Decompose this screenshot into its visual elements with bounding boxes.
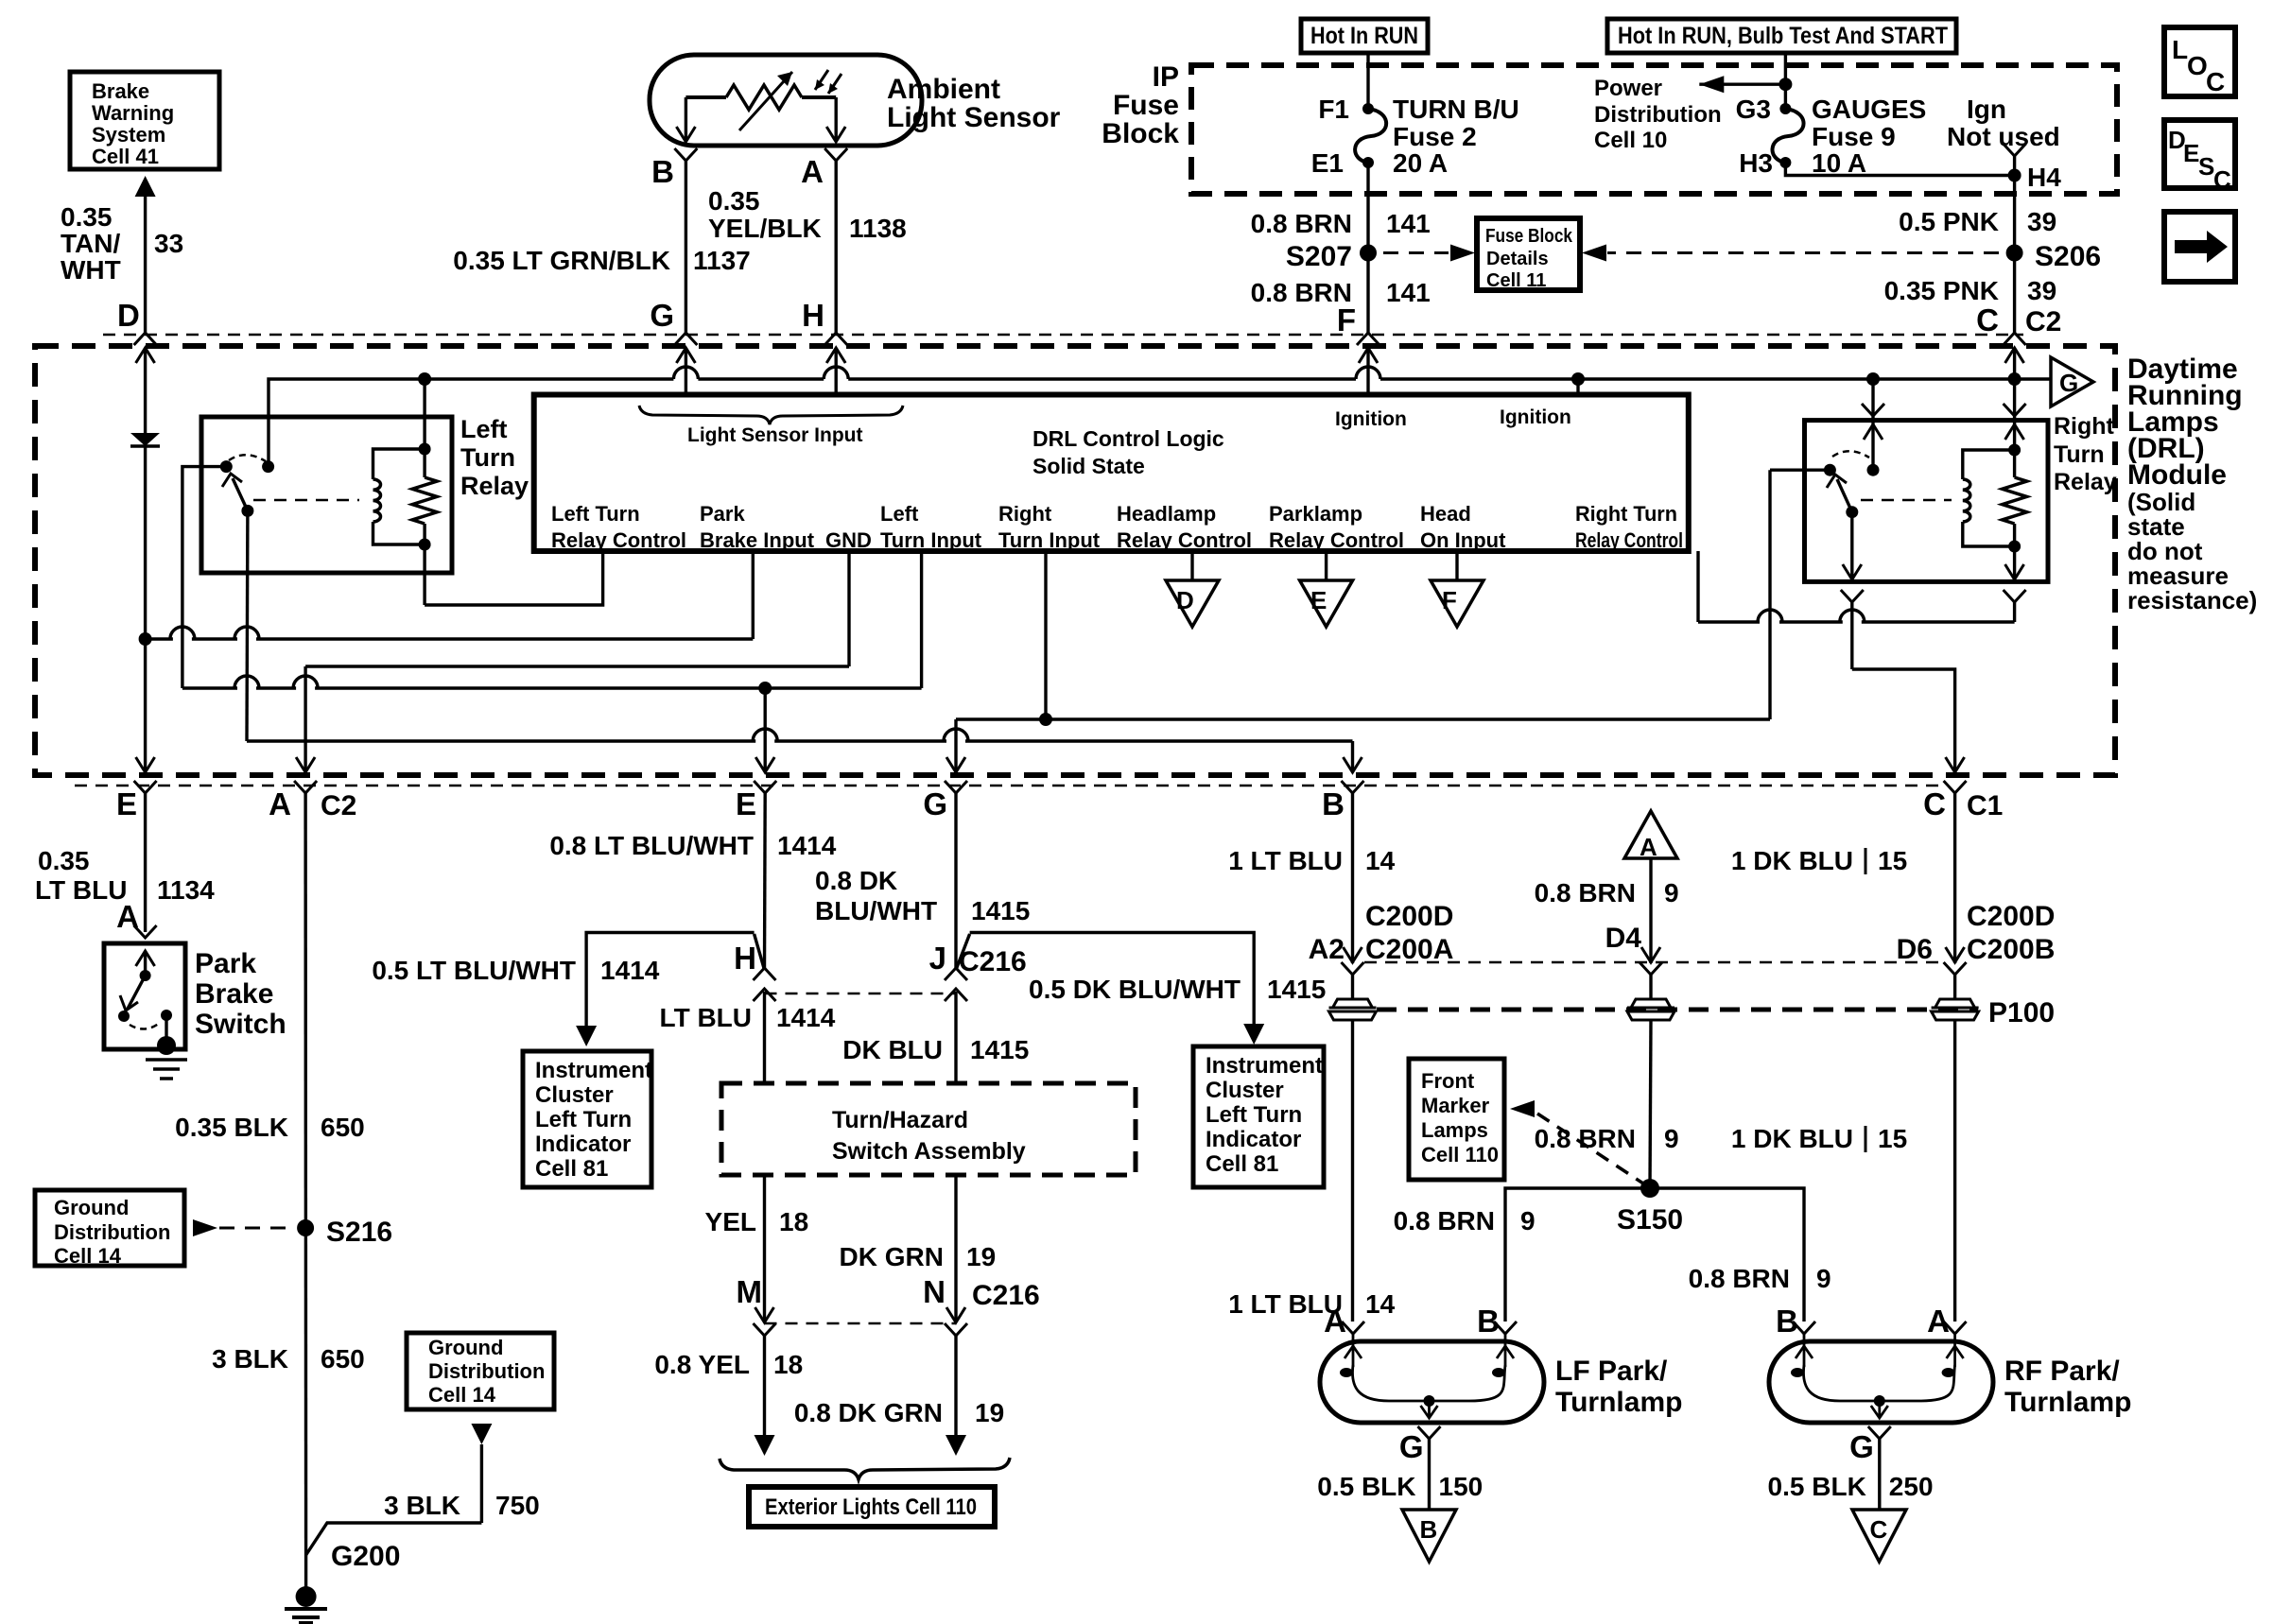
svg-text:Power: Power (1594, 76, 1662, 101)
branch 1415 to instrument cluster right (956, 934, 970, 970)
svg-text:Turnlamp: Turnlamp (2004, 1387, 2131, 1418)
svg-text:39: 39 (2027, 276, 2056, 305)
left relay resistor (423, 449, 425, 477)
module bottom connector G center (945, 781, 967, 793)
DRL control logic box (534, 395, 1689, 552)
svg-text:B: B (1420, 1515, 1438, 1544)
svg-text:YEL: YEL (705, 1207, 756, 1236)
svg-text:Block: Block (1102, 118, 1179, 149)
svg-text:D6: D6 (1897, 934, 1933, 965)
svg-text:1138: 1138 (849, 214, 907, 243)
right relay NC contact (1824, 464, 1836, 476)
svg-text:Distribution: Distribution (54, 1220, 170, 1244)
svg-text:0.5 LT BLU/WHT: 0.5 LT BLU/WHT (372, 956, 576, 985)
wire left relay common to B output Y3 (245, 510, 249, 741)
svg-text:Cluster: Cluster (1206, 1078, 1284, 1103)
arrow to Power Distribution Cell 10 (1699, 82, 1785, 85)
ground G200 (296, 1586, 317, 1607)
svg-text:Warning: Warning (92, 101, 174, 125)
svg-text:Ignition: Ignition (1500, 406, 1571, 428)
svg-text:Ground: Ground (54, 1196, 129, 1219)
svg-text:C216: C216 (972, 1280, 1040, 1311)
right relay coil (2008, 444, 2021, 457)
module bottom connector E center (754, 781, 776, 793)
svg-text:GND: GND (825, 528, 872, 552)
wire module G output 1415 with right turn input rail (954, 719, 957, 772)
svg-text:Head: Head (1420, 502, 1471, 526)
svg-text:Fuse 2: Fuse 2 (1393, 122, 1477, 151)
svg-text:Cell 14: Cell 14 (54, 1244, 122, 1268)
connector line bottom (thin dashed) (75, 785, 1943, 787)
svg-text:LF Park/: LF Park/ (1555, 1356, 1668, 1387)
svg-text:Hot In RUN, Bulb Test And STAR: Hot In RUN, Bulb Test And START (1618, 23, 1948, 49)
svg-text:1415: 1415 (1267, 975, 1326, 1004)
module top connector D (134, 333, 157, 345)
svg-text:C200D: C200D (1365, 901, 1453, 932)
legend box LOC (2164, 27, 2235, 96)
wire 9 BRN from triangle A (1649, 858, 1652, 963)
dashed arrow to front marker lamps (1510, 1100, 1535, 1117)
wire 15 DK BLU to RF lamp A (1953, 1020, 1956, 1322)
svg-text:Fuse 9: Fuse 9 (1812, 122, 1896, 151)
connector N (945, 1323, 967, 1336)
svg-text:Turn Input: Turn Input (998, 528, 1101, 552)
svg-text:Turn Input: Turn Input (880, 528, 982, 552)
svg-text:Relay Control: Relay Control (1117, 528, 1252, 552)
dashed link ground distribution to S216 (193, 1219, 217, 1236)
module bottom connector E left (134, 781, 157, 793)
left relay coil feed wire (423, 379, 425, 449)
wire LT BLU 1414 into switch assembly (763, 992, 766, 1083)
wire 1138 YEL/BLK sensor A (835, 161, 838, 333)
box Instrument Cluster Left Turn Indicator Cell 81 right (1193, 1046, 1324, 1187)
svg-text:Not used: Not used (1947, 122, 2060, 151)
svg-text:1414: 1414 (776, 1003, 836, 1032)
svg-text:C2: C2 (321, 790, 356, 821)
svg-text:LT BLU: LT BLU (660, 1003, 752, 1032)
wire left relay coil to relay control (423, 544, 425, 605)
svg-text:resistance): resistance) (2127, 586, 2257, 614)
module output triangle A brn feed (1624, 811, 1677, 858)
svg-text:14: 14 (1365, 1289, 1396, 1319)
svg-text:A: A (1640, 833, 1657, 861)
svg-text:DK BLU: DK BLU (842, 1035, 943, 1064)
svg-text:0.5 PNK: 0.5 PNK (1899, 207, 1999, 236)
svg-text:Ign: Ign (1967, 95, 2006, 124)
wire park brake input Y1 (146, 637, 173, 640)
module bottom connector C C1 (1944, 781, 1967, 793)
svg-text:G200: G200 (331, 1541, 400, 1572)
box Hot In RUN (1301, 19, 1428, 53)
svg-text:F1: F1 (1318, 95, 1349, 124)
svg-text:0.8 LT BLU/WHT: 0.8 LT BLU/WHT (549, 831, 754, 860)
svg-text:19: 19 (966, 1242, 996, 1271)
svg-text:A: A (801, 154, 824, 189)
svg-text:Solid State: Solid State (1032, 454, 1145, 478)
svg-text:9: 9 (1664, 878, 1679, 907)
svg-text:0.35: 0.35 (61, 202, 113, 232)
left relay NC contact (220, 460, 233, 473)
svg-text:0.8 BRN: 0.8 BRN (1535, 1124, 1636, 1153)
svg-text:E1: E1 (1311, 148, 1344, 178)
wire 39 PNK from H4 (2013, 176, 2016, 334)
wire module ground output A (304, 666, 306, 772)
svg-text:Left Turn: Left Turn (551, 502, 640, 526)
svg-text:Left: Left (880, 502, 919, 526)
grommet P100 on DK BLU (1953, 975, 1956, 999)
svg-text:3 BLK: 3 BLK (384, 1491, 460, 1520)
lamp RF Park/ Turnlamp body (1769, 1341, 1993, 1423)
park brake switch contacts (144, 951, 147, 976)
wire left NC lower segment (181, 676, 183, 688)
wire 14 LT BLU module B to LF lamp (1351, 793, 1354, 963)
svg-text:Right: Right (998, 502, 1052, 526)
IP fuse block dashed outline (1191, 65, 2117, 194)
svg-text:1 DK BLU: 1 DK BLU (1731, 1124, 1853, 1153)
left relay mechanical link dashed (253, 499, 359, 502)
svg-text:Module: Module (2127, 459, 2227, 491)
connector H (754, 968, 776, 980)
svg-text:C1: C1 (1967, 790, 2003, 821)
connector C216 H-J dashed (765, 993, 957, 995)
svg-text:Indicator: Indicator (1206, 1127, 1301, 1152)
wire H3 to H4 (1785, 163, 2014, 176)
svg-text:Details: Details (1486, 249, 1549, 269)
svg-text:H: H (802, 298, 824, 333)
svg-text:0.8 DK GRN: 0.8 DK GRN (794, 1398, 943, 1427)
svg-text:141: 141 (1386, 209, 1431, 238)
svg-text:Fuse: Fuse (1113, 90, 1179, 121)
svg-text:Right Turn: Right Turn (1575, 502, 1677, 526)
box Instrument Cluster Left Turn Indicator Cell 81 left (523, 1051, 651, 1187)
svg-text:G: G (650, 298, 674, 333)
svg-text:Indicator: Indicator (535, 1132, 631, 1157)
svg-text:B: B (1776, 1304, 1798, 1339)
svg-text:0.8 BRN: 0.8 BRN (1535, 878, 1636, 907)
svg-text:0.35: 0.35 (708, 186, 760, 216)
svg-text:RF Park/: RF Park/ (2004, 1356, 2120, 1387)
dashed arrow S207 to fuse block details (1383, 251, 1449, 254)
wire 18 YEL from switch assembly (763, 1175, 766, 1322)
svg-text:J: J (929, 941, 946, 976)
right turn relay box (1805, 421, 2049, 582)
svg-text:Hot In RUN: Hot In RUN (1310, 23, 1418, 49)
fuse 2 TURN B/U 20A (1362, 103, 1374, 114)
svg-text:Switch: Switch (195, 1009, 286, 1040)
svg-text:S150: S150 (1617, 1204, 1683, 1235)
module input triangle B (1402, 1510, 1456, 1562)
wire 9 BRN S150 to LF lamp B (1505, 1188, 1650, 1322)
splice S150 (1640, 1179, 1659, 1198)
brace light sensor input (639, 406, 903, 424)
svg-text:C: C (1870, 1515, 1888, 1544)
svg-text:Cell 41: Cell 41 (92, 145, 159, 168)
connector A park brake switch (134, 925, 157, 938)
grommet P100 on BRN (1649, 975, 1652, 999)
svg-text:Cell 81: Cell 81 (1206, 1151, 1278, 1177)
svg-text:H3: H3 (1739, 148, 1773, 178)
svg-text:C2: C2 (2025, 306, 2061, 337)
svg-text:O: O (2187, 51, 2208, 80)
svg-text:Relay Control: Relay Control (1575, 528, 1683, 552)
wire module E output 1414 (764, 688, 767, 772)
svg-text:F: F (1337, 302, 1356, 337)
svg-text:0.8 BRN: 0.8 BRN (1689, 1264, 1790, 1293)
svg-text:39: 39 (2027, 207, 2056, 236)
svg-text:Brake Input: Brake Input (700, 528, 815, 552)
wire DK BLU 1415 into switch assembly (954, 992, 957, 1083)
svg-text:Park: Park (700, 502, 745, 526)
node park brake branch (139, 632, 152, 646)
svg-text:G: G (1399, 1429, 1424, 1464)
wire left relay NC to left turn input (182, 467, 226, 676)
svg-text:1 LT BLU: 1 LT BLU (1228, 846, 1343, 875)
node rail ignition stub (1571, 372, 1585, 386)
svg-text:0.5 DK BLU/WHT: 0.5 DK BLU/WHT (1029, 975, 1241, 1004)
module bottom connector A C2 (294, 781, 317, 793)
wire 0.8 YEL 18 to exterior lights (763, 1336, 766, 1435)
module input triangle C (1852, 1510, 1906, 1562)
svg-text:Instrument: Instrument (1206, 1053, 1323, 1079)
svg-text:0.35 BLK: 0.35 BLK (175, 1113, 288, 1142)
svg-text:18: 18 (779, 1207, 808, 1236)
svg-text:18: 18 (773, 1350, 803, 1379)
wire 0.8 DK GRN 19 to exterior lights (954, 1336, 957, 1435)
lamp LF Park/ Turnlamp body (1320, 1341, 1544, 1423)
svg-text:H4: H4 (2027, 163, 2061, 192)
connector M (754, 1323, 776, 1336)
connector C216 M-N dashed (765, 1322, 957, 1325)
park brake switch box (104, 943, 185, 1049)
svg-text:1414: 1414 (600, 956, 660, 985)
svg-text:B: B (1322, 786, 1345, 821)
wire right coil to relay control (2013, 546, 2016, 581)
variable-resistor arrow (739, 72, 792, 130)
svg-text:Marker: Marker (1421, 1094, 1490, 1117)
svg-text:Left Turn: Left Turn (535, 1107, 632, 1132)
right relay resistor (2013, 450, 2016, 477)
svg-text:Left Turn: Left Turn (1206, 1102, 1302, 1128)
svg-text:9: 9 (1816, 1264, 1831, 1293)
svg-text:Fuse Block: Fuse Block (1485, 226, 1573, 247)
left turn relay box (201, 417, 452, 573)
box Ground Distribution Cell 14 right (407, 1333, 554, 1409)
right relay mechanical link dashed (1861, 499, 1952, 502)
left relay travel arc dashed (229, 455, 266, 461)
svg-text:15: 15 (1878, 846, 1907, 875)
svg-text:C: C (1976, 302, 1999, 337)
module top connector C (2004, 333, 2026, 345)
svg-text:Brake: Brake (195, 978, 273, 1010)
grommet P100 on LT BLU (1351, 975, 1354, 999)
node E output branch (758, 682, 772, 695)
svg-text:E: E (2183, 139, 2199, 167)
svg-text:3 BLK: 3 BLK (212, 1344, 288, 1373)
svg-text:0.8 YEL: 0.8 YEL (654, 1350, 750, 1379)
svg-text:C: C (2206, 67, 2225, 96)
module output triangle F head on input (1455, 551, 1458, 580)
svg-text:10 A: 10 A (1812, 148, 1866, 178)
svg-text:1137: 1137 (693, 246, 751, 275)
svg-text:LT BLU: LT BLU (35, 875, 127, 905)
svg-text:Light Sensor: Light Sensor (887, 102, 1061, 133)
splice S207 (1360, 245, 1377, 262)
svg-text:0.8 BRN: 0.8 BRN (1394, 1206, 1495, 1235)
svg-text:Turn: Turn (2054, 441, 2105, 468)
wire 15 DK BLU module C to RF lamp (1953, 793, 1956, 963)
wire 14 LT BLU to LF lamp A (1351, 1020, 1354, 1322)
svg-text:D: D (1176, 586, 1194, 614)
svg-text:A: A (1927, 1304, 1950, 1339)
svg-text:20 A: 20 A (1393, 148, 1448, 178)
svg-text:15: 15 (1878, 1124, 1907, 1153)
wire 1415 DK BLU/WHT module G to J (954, 793, 957, 970)
wire D input with diode to E output (144, 348, 147, 433)
svg-text:System: System (92, 123, 165, 147)
svg-text:C200D: C200D (1967, 901, 2055, 932)
module output triangle D headlamp relay control (1190, 551, 1193, 580)
diode (130, 433, 160, 446)
module top connector G (674, 333, 697, 345)
right relay travel arc dashed (1832, 451, 1869, 458)
wire 33 TAN/WHT to brake warning system (144, 180, 147, 333)
lamp LF Park/ ground lead G (1418, 1426, 1441, 1439)
svg-text:Headlamp: Headlamp (1117, 502, 1216, 526)
module top connector F (1357, 333, 1379, 345)
svg-text:YEL/BLK: YEL/BLK (708, 214, 822, 243)
park brake switch ground (165, 1015, 167, 1045)
right relay common pivot (1846, 506, 1858, 518)
svg-text:1415: 1415 (970, 1035, 1029, 1064)
splice S216 (297, 1219, 314, 1236)
wire rail to right relay NO (1862, 404, 1884, 416)
connector LF lamp A (1342, 1322, 1364, 1334)
svg-text:Cell 81: Cell 81 (535, 1156, 608, 1182)
node rail right relay feed (1866, 372, 1880, 386)
svg-text:Turn: Turn (460, 443, 515, 472)
svg-text:G: G (2059, 369, 2078, 397)
node rail right coil feed (2008, 372, 2021, 386)
connector A below sensor (824, 148, 847, 161)
module output triangle E parklamp relay control (1325, 551, 1327, 580)
svg-text:Relay: Relay (460, 472, 529, 500)
box Fuse Block Details Cell 11 (1477, 218, 1580, 290)
svg-text:C: C (1923, 786, 1946, 821)
svg-text:Cell 11: Cell 11 (1486, 270, 1546, 291)
module output triangle G (2051, 357, 2093, 406)
svg-text:WHT: WHT (61, 255, 121, 285)
branch 1414 to instrument cluster left (755, 934, 765, 970)
lamp LF Park/ internals (1352, 1341, 1355, 1367)
legend box DESC (2164, 120, 2235, 188)
svg-text:B: B (651, 154, 674, 189)
svg-text:Turnlamp: Turnlamp (1555, 1387, 1682, 1418)
svg-text:0.35 PNK: 0.35 PNK (1884, 276, 1999, 305)
svg-text:C216: C216 (959, 946, 1027, 977)
connector RF lamp A (1944, 1322, 1967, 1334)
photoresistor inside sensor (685, 95, 726, 99)
svg-text:F: F (1442, 586, 1457, 614)
legend box arrow (2164, 212, 2235, 282)
svg-text:Relay Control: Relay Control (1269, 528, 1404, 552)
svg-text:Brake: Brake (92, 79, 149, 103)
node right turn input junction (1039, 713, 1052, 726)
svg-text:TAN/: TAN/ (61, 229, 120, 258)
svg-text:1 DK BLU: 1 DK BLU (1731, 846, 1853, 875)
wire 1134 LT BLU to park brake switch (144, 793, 147, 932)
svg-text:B: B (1477, 1304, 1500, 1339)
svg-text:19: 19 (975, 1398, 1004, 1427)
svg-text:1414: 1414 (777, 831, 837, 860)
module bottom connector B (1342, 781, 1364, 793)
svg-text:0.5 BLK: 0.5 BLK (1317, 1472, 1415, 1501)
svg-text:DK GRN: DK GRN (840, 1242, 944, 1271)
wire 1137 LT GRN/BLK sensor B (685, 161, 687, 333)
svg-text:D4: D4 (1605, 923, 1642, 954)
connector J (945, 968, 967, 980)
left relay coil (419, 443, 431, 456)
svg-text:S206: S206 (2035, 241, 2101, 272)
svg-text:S216: S216 (326, 1217, 392, 1248)
box Hot In RUN, Bulb Test And START (1607, 19, 1956, 53)
box Exterior Lights Cell 110 (749, 1487, 995, 1527)
wire 1414 LT BLU/WHT module E to H (763, 793, 767, 970)
box Front Marker Lamps Cell 110 (1409, 1059, 1504, 1180)
wire right relay NC riser (1768, 470, 1771, 719)
wire right relay common to C output (1850, 512, 1853, 582)
light arrows on sensor (815, 70, 828, 90)
svg-text:Ignition: Ignition (1335, 408, 1407, 430)
left relay switch arm (233, 478, 248, 510)
svg-text:1134: 1134 (157, 875, 215, 905)
svg-text:Relay: Relay (2054, 469, 2117, 495)
svg-text:0.35 LT GRN/BLK: 0.35 LT GRN/BLK (453, 246, 670, 275)
box Ground Distribution Cell 14 left (35, 1190, 184, 1266)
svg-text:9: 9 (1520, 1206, 1536, 1235)
svg-text:A: A (269, 786, 291, 821)
svg-text:Cluster: Cluster (535, 1082, 614, 1108)
svg-text:Front: Front (1421, 1069, 1475, 1093)
node H4 (2008, 169, 2021, 182)
svg-text:Ambient: Ambient (887, 74, 1000, 105)
connector line C200 dashed (1364, 961, 1943, 964)
svg-text:Left: Left (460, 415, 508, 443)
svg-text:Distribution: Distribution (1594, 102, 1722, 128)
wire from Hot In RUN to fuse F1 (1366, 53, 1369, 109)
wire 650 BLK to ground (304, 793, 307, 1597)
svg-text:Park: Park (195, 948, 256, 979)
svg-text:H: H (734, 941, 756, 976)
ambient light sensor body (650, 55, 922, 146)
svg-text:Instrument: Instrument (535, 1058, 652, 1083)
connector line C2-C1 top (thin dashed) (103, 334, 2023, 337)
wire 750 BLK to ground distribution (471, 1424, 492, 1444)
svg-text:Parklamp: Parklamp (1269, 502, 1362, 526)
connector B below sensor (674, 148, 697, 161)
svg-text:Cell 14: Cell 14 (428, 1383, 496, 1407)
svg-text:L: L (2172, 35, 2188, 64)
svg-text:S: S (2198, 152, 2214, 181)
connector line P100 dashed (1377, 1008, 1978, 1012)
svg-text:14: 14 (1365, 846, 1396, 875)
svg-text:650: 650 (321, 1344, 365, 1373)
connector LF lamp B (1494, 1322, 1517, 1334)
svg-text:P100: P100 (1988, 997, 2055, 1028)
svg-text:Light Sensor Input: Light Sensor Input (687, 424, 862, 446)
wire 9 BRN to S150 (1650, 1020, 1651, 1188)
svg-text:Turn/Hazard: Turn/Hazard (832, 1107, 968, 1133)
box Brake Warning System Cell 41 (70, 72, 219, 169)
